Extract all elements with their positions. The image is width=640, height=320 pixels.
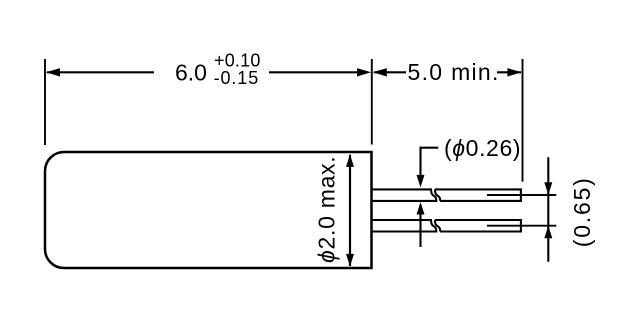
svg-text:-0.15: -0.15 bbox=[214, 68, 260, 88]
svg-text:(0.65): (0.65) bbox=[569, 176, 595, 247]
svg-text:6.0: 6.0 bbox=[175, 60, 207, 86]
svg-text:ϕ2.0 max.: ϕ2.0 max. bbox=[314, 156, 340, 263]
svg-text:(ϕ0.26): (ϕ0.26) bbox=[444, 135, 521, 161]
svg-text:5.0 min.: 5.0 min. bbox=[408, 59, 500, 85]
